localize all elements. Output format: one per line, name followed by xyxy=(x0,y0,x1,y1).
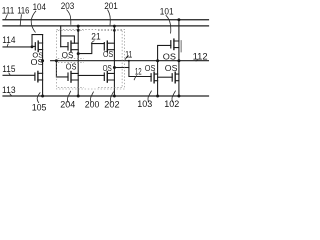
leader 204 xyxy=(67,91,70,103)
wire axis 102 xyxy=(178,61,180,96)
leader 203 xyxy=(67,10,71,25)
transistor Q201 xyxy=(103,43,105,50)
leader 200 xyxy=(90,92,93,103)
wire gate lead 104 xyxy=(32,45,35,47)
svg-text:112: 112 xyxy=(193,52,208,63)
svg-text:OS: OS xyxy=(62,51,74,60)
leader 113 xyxy=(10,94,12,96)
svg-text:OS: OS xyxy=(103,64,112,73)
svg-text:12: 12 xyxy=(135,66,142,76)
leader 105 xyxy=(37,92,40,103)
leader lines xyxy=(6,10,199,104)
leader 114 xyxy=(7,44,8,47)
svg-text:200: 200 xyxy=(85,99,100,109)
wire back bar 101 xyxy=(180,41,182,53)
leader 21 xyxy=(91,41,94,44)
transistor Q203 xyxy=(67,43,69,50)
wire axis 203/204 column xyxy=(77,26,79,96)
svg-text:21: 21 xyxy=(91,32,100,43)
wire gate lead 203 xyxy=(61,46,68,48)
dashed inner bottom edges 204 / 202 xyxy=(58,87,122,89)
leader 103 xyxy=(148,91,152,103)
transistor Q103 xyxy=(150,74,152,81)
svg-text:OS: OS xyxy=(66,63,77,72)
wire gate lead 102 xyxy=(158,76,173,78)
wire axis 101 to line 111 xyxy=(178,20,180,61)
svg-text:201: 201 xyxy=(104,1,118,11)
leader 115 xyxy=(9,73,11,76)
leader 101 xyxy=(166,15,171,33)
svg-text:11: 11 xyxy=(125,49,132,59)
svg-text:111: 111 xyxy=(2,6,15,16)
leader 201 xyxy=(108,10,111,26)
svg-text:102: 102 xyxy=(164,99,179,109)
svg-text:202: 202 xyxy=(104,99,119,109)
wire line 113 xyxy=(3,95,209,97)
svg-text:OS: OS xyxy=(165,64,178,73)
svg-text:101: 101 xyxy=(160,6,174,16)
wire line 115 xyxy=(3,74,35,76)
dashed box 200 xyxy=(56,29,124,89)
wire node 21 xyxy=(78,44,104,54)
leader 12 xyxy=(134,75,137,80)
wire node 11 link xyxy=(114,67,128,69)
dashed inner right edge 201/202 xyxy=(121,31,123,88)
junction dots xyxy=(31,18,181,97)
wire line 114 xyxy=(3,46,32,48)
svg-text:104: 104 xyxy=(33,2,46,12)
dashed inner mid edges 203/204 xyxy=(58,59,84,63)
svg-text:OS: OS xyxy=(163,52,176,62)
wire gate descend 204 xyxy=(56,61,68,77)
svg-text:115: 115 xyxy=(2,64,15,74)
wire axis 104/105 column xyxy=(42,35,44,96)
svg-text:114: 114 xyxy=(2,35,15,45)
wire line 116 xyxy=(3,25,209,27)
wire axis 103 + gate lead 101 riser xyxy=(158,45,171,96)
svg-text:105: 105 xyxy=(32,102,47,112)
svg-text:113: 113 xyxy=(2,85,16,95)
svg-text:203: 203 xyxy=(61,1,75,11)
transistor Q101 xyxy=(170,41,172,48)
transistor Q105 xyxy=(34,73,36,80)
leader 102 xyxy=(172,91,176,103)
leader 202 xyxy=(110,92,113,103)
svg-text:103: 103 xyxy=(137,99,152,109)
leader 112 xyxy=(196,60,198,62)
wire gate-drain loop of transistor 104 xyxy=(32,35,43,47)
wire axis 201/202 column xyxy=(113,26,115,96)
svg-text:OS: OS xyxy=(103,50,113,59)
wire line 112 / mid node wire xyxy=(51,60,209,62)
transistor Q204 xyxy=(67,73,69,80)
svg-text:OS: OS xyxy=(145,64,156,73)
svg-text:204: 204 xyxy=(60,99,75,109)
wire 203 gate loop / connection to line 116 xyxy=(61,26,75,47)
leader 104 xyxy=(31,11,36,33)
transistor Q104 xyxy=(34,43,36,50)
transistor Q202 xyxy=(103,73,105,80)
wire gate lead 202 from column xyxy=(78,74,104,76)
wire line 111 xyxy=(3,19,209,21)
transistor Q102 xyxy=(171,74,173,81)
svg-text:116: 116 xyxy=(17,6,29,16)
svg-text:OS: OS xyxy=(31,57,44,67)
leader 11 xyxy=(125,56,129,60)
dashed inner top edges 203 / 201 xyxy=(58,30,122,32)
leader 116 xyxy=(20,14,21,25)
wire node 12 branch to gate 103 xyxy=(129,61,151,77)
leader 111 xyxy=(6,14,8,19)
